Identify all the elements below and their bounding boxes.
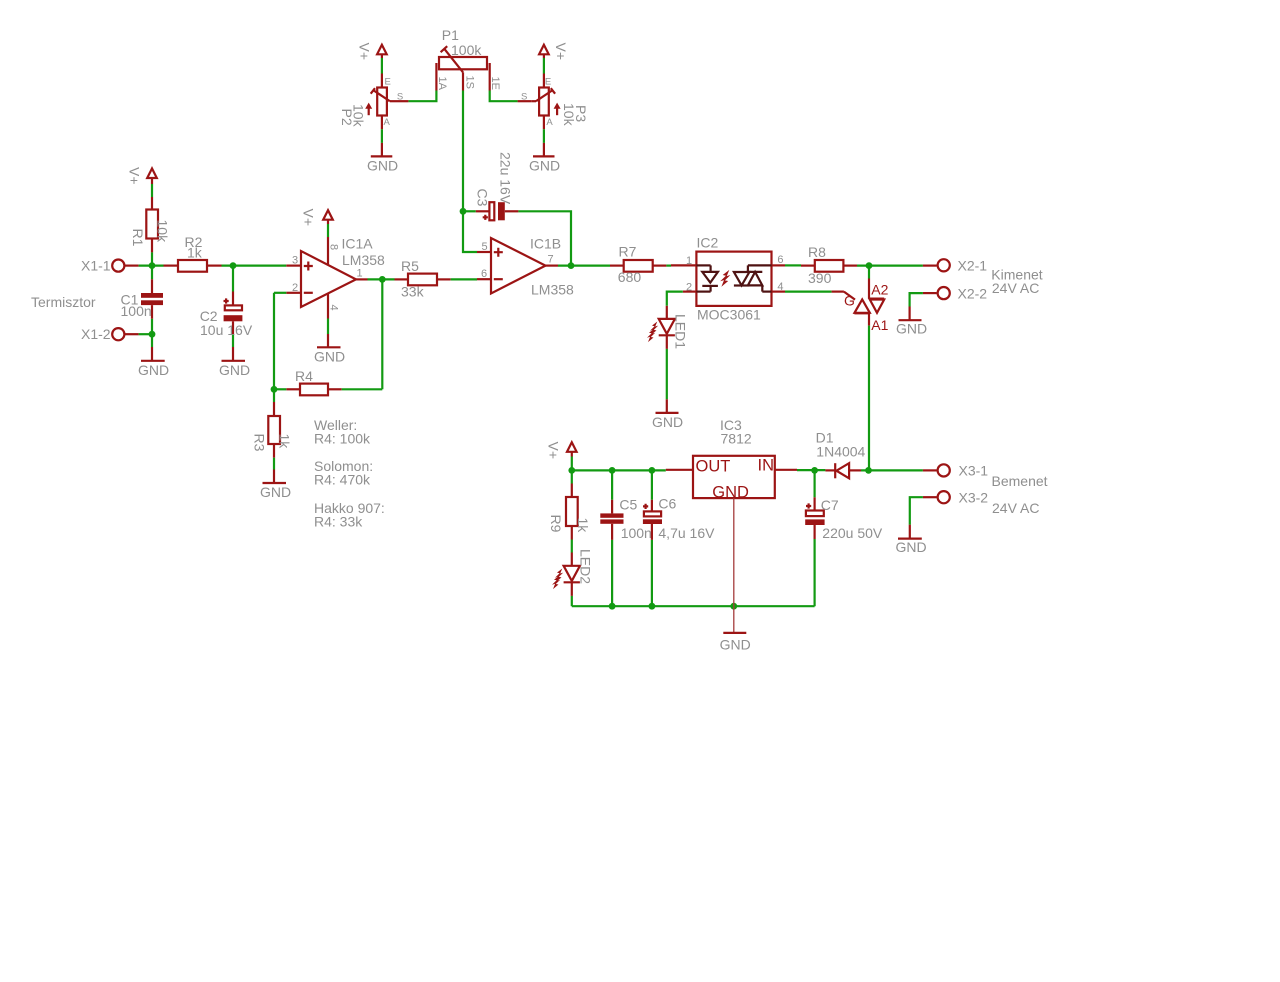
wire IC1A output node bbox=[368, 278, 395, 280]
wire triac A1 down to X3-1 node bbox=[868, 326, 870, 471]
svg-text:C6: C6 bbox=[658, 496, 676, 512]
svg-text:10k: 10k bbox=[561, 103, 577, 127]
resistor R4 bbox=[286, 368, 341, 395]
supply symbol V+ (IC1A) bbox=[301, 209, 333, 227]
svg-text:GND: GND bbox=[260, 484, 291, 500]
wire R3 to ground bbox=[273, 458, 275, 470]
svg-text:100n: 100n bbox=[621, 525, 652, 541]
junction node thermistor bbox=[149, 262, 156, 269]
ground GND (C2) bbox=[219, 347, 250, 378]
svg-text:2: 2 bbox=[686, 282, 692, 294]
svg-text:IN: IN bbox=[758, 456, 775, 474]
svg-text:R4: 33k: R4: 33k bbox=[314, 514, 363, 530]
note text Weller bbox=[314, 417, 371, 447]
op-amp IC1B pin5 stub bbox=[477, 251, 491, 253]
junction IC1A output bbox=[379, 276, 386, 283]
svg-text:C5: C5 bbox=[619, 496, 637, 512]
terminal X3-1 bbox=[923, 463, 988, 479]
svg-text:7812: 7812 bbox=[721, 431, 752, 447]
optocoupler IC2 pin1 stub bbox=[671, 264, 696, 266]
ground GND (bottom rail) bbox=[720, 606, 751, 652]
wire IC1A pin2 feedback bbox=[274, 293, 286, 402]
svg-text:1k: 1k bbox=[277, 434, 293, 450]
svg-text:C3: C3 bbox=[475, 189, 491, 207]
terminal X2-1 bbox=[923, 258, 987, 274]
wire IC2 pin2 to LED1 bbox=[667, 292, 683, 306]
svg-text:P1: P1 bbox=[442, 27, 459, 43]
svg-text:S: S bbox=[521, 92, 527, 103]
capacitor C7 220u 50V bbox=[805, 470, 883, 606]
wire D1 to X3-1 bbox=[861, 469, 923, 471]
svg-text:10u 16V: 10u 16V bbox=[200, 322, 253, 338]
wire P1 1A to P2 wiper bbox=[408, 91, 436, 102]
terminal X2-2 bbox=[923, 285, 987, 301]
op-amp IC1A pin4 stub bbox=[327, 294, 329, 319]
svg-text:A2: A2 bbox=[871, 282, 888, 298]
svg-text:GND: GND bbox=[652, 414, 683, 430]
svg-text:680: 680 bbox=[618, 269, 642, 285]
capacitor C2 10u 16V bbox=[200, 266, 253, 339]
supply symbol V+ (P2) bbox=[357, 43, 387, 61]
ground GND (R3) bbox=[260, 470, 291, 501]
wire IC3 IN to D1 node bbox=[797, 469, 825, 471]
svg-text:X2-1: X2-1 bbox=[958, 258, 988, 274]
svg-text:OUT: OUT bbox=[696, 457, 731, 475]
svg-text:V+: V+ bbox=[301, 209, 317, 227]
label Kimenet 24V AC bbox=[991, 266, 1042, 296]
wire C2 to ground bbox=[232, 335, 234, 347]
wire R9 to LED2 bbox=[571, 540, 573, 553]
capacitor C6 4,7u 16V bbox=[643, 470, 715, 606]
svg-text:4,7u 16V: 4,7u 16V bbox=[658, 525, 715, 541]
svg-text:GND: GND bbox=[712, 484, 749, 502]
label Bemenet 24V AC bbox=[992, 473, 1048, 516]
svg-text:22u 16V: 22u 16V bbox=[498, 152, 514, 205]
wire X1-2 to node bbox=[139, 333, 152, 335]
svg-text:GND: GND bbox=[896, 320, 927, 336]
svg-text:1E: 1E bbox=[489, 77, 501, 90]
ground GND (P2) bbox=[367, 143, 398, 174]
wire R1 to node bbox=[151, 252, 153, 265]
ground GND (IC1A) bbox=[314, 334, 345, 365]
svg-text:E: E bbox=[545, 77, 551, 88]
svg-text:10k: 10k bbox=[351, 104, 367, 128]
optocoupler IC2 pin6 stub bbox=[772, 264, 786, 266]
junction rail R9 bbox=[568, 467, 575, 474]
svg-text:GND: GND bbox=[720, 636, 751, 652]
svg-text:1A: 1A bbox=[436, 77, 448, 91]
junction X1-2 node bbox=[149, 331, 156, 338]
svg-text:V+: V+ bbox=[127, 167, 143, 185]
terminal X1-1 bbox=[81, 258, 139, 274]
junction rail C5 bbox=[609, 467, 616, 474]
wire IC1B output to R7 bbox=[558, 265, 610, 267]
wire X3-2 to ground bbox=[910, 497, 923, 525]
optocoupler IC2 pin2 stub bbox=[683, 291, 697, 293]
svg-text:R3: R3 bbox=[252, 434, 268, 452]
svg-text:R7: R7 bbox=[619, 244, 637, 260]
wire X1-1 to R2 bbox=[139, 265, 164, 267]
svg-text:1: 1 bbox=[357, 267, 363, 279]
svg-text:E: E bbox=[385, 77, 391, 88]
wire IC2 pin6 to R8 bbox=[785, 264, 801, 266]
svg-text:X1-1: X1-1 bbox=[81, 258, 111, 274]
resistor R3 1k bbox=[252, 402, 293, 458]
wire V+ to IC1A pin8 bbox=[327, 224, 329, 237]
svg-text:LED2: LED2 bbox=[578, 549, 594, 584]
capacitor C5 100n bbox=[600, 470, 652, 606]
svg-text:GND: GND bbox=[314, 349, 345, 365]
svg-text:100n: 100n bbox=[121, 303, 152, 319]
junction IC1B output bbox=[568, 262, 575, 269]
svg-text:R1: R1 bbox=[130, 229, 146, 247]
svg-text:24V AC: 24V AC bbox=[992, 280, 1039, 296]
svg-text:8: 8 bbox=[328, 244, 340, 250]
svg-text:Bemenet: Bemenet bbox=[992, 473, 1048, 489]
svg-text:GND: GND bbox=[219, 362, 250, 378]
ground GND (X2-2) bbox=[896, 307, 927, 337]
supply symbol V+ (rail) bbox=[546, 442, 577, 460]
wire R5 to IC1B pin6 bbox=[451, 278, 477, 280]
wire bottom ground rail bbox=[572, 605, 815, 607]
svg-text:Termisztor: Termisztor bbox=[31, 294, 96, 310]
svg-text:IC2: IC2 bbox=[697, 235, 719, 251]
svg-text:R4: 470k: R4: 470k bbox=[314, 472, 371, 488]
svg-text:6: 6 bbox=[481, 268, 487, 280]
wire V+ to R1 bbox=[151, 184, 153, 197]
op-amp IC1B pin6 stub bbox=[477, 278, 491, 280]
op-amp IC1A output stub bbox=[356, 278, 368, 280]
junction X2-1 node bbox=[866, 262, 873, 269]
ground GND (X3-2) bbox=[895, 525, 926, 555]
supply symbol V+ (P3) bbox=[539, 43, 569, 61]
resistor R8 390 bbox=[801, 244, 857, 286]
note text Solomon bbox=[314, 458, 373, 488]
svg-text:1k: 1k bbox=[575, 518, 591, 534]
wire P3 A to ground bbox=[543, 129, 545, 143]
note text Hakko bbox=[314, 500, 385, 530]
wire IC2 pin4 to triac gate bbox=[785, 291, 832, 293]
potentiometer P2 10k bbox=[339, 74, 408, 130]
svg-text:33k: 33k bbox=[401, 284, 425, 300]
svg-text:GND: GND bbox=[367, 158, 398, 174]
svg-text:X3-2: X3-2 bbox=[959, 489, 989, 505]
svg-text:1N4004: 1N4004 bbox=[816, 443, 865, 459]
potentiometer P1 100k bbox=[436, 27, 501, 90]
capacitor C3 22u 16V bbox=[475, 152, 519, 220]
terminal X1-2 bbox=[81, 326, 139, 342]
supply symbol V+ (R1 branch) bbox=[127, 167, 157, 185]
junction rail C6 bbox=[649, 467, 656, 474]
svg-text:IC1B: IC1B bbox=[530, 236, 561, 252]
wire C1 to X1-2 node bbox=[151, 319, 153, 347]
wire P2 A to ground bbox=[381, 129, 383, 143]
svg-text:5: 5 bbox=[482, 241, 488, 253]
op-amp IC1A pin8 stub bbox=[327, 237, 329, 265]
svg-text:24V AC: 24V AC bbox=[992, 500, 1039, 516]
svg-text:GND: GND bbox=[138, 362, 169, 378]
junction X3-1 node bbox=[865, 467, 872, 474]
svg-text:X2-2: X2-2 bbox=[958, 285, 988, 301]
svg-text:LM358: LM358 bbox=[342, 252, 385, 268]
svg-text:100k: 100k bbox=[451, 42, 482, 58]
terminal X3-2 bbox=[923, 489, 988, 505]
resistor R7 680 bbox=[610, 244, 666, 286]
svg-text:R5: R5 bbox=[401, 258, 419, 274]
wire P1 1S down to C3 node bbox=[462, 91, 464, 212]
diode LED1 bbox=[647, 306, 689, 349]
diode D1 1N4004 bbox=[816, 429, 866, 478]
svg-text:X1-2: X1-2 bbox=[81, 326, 111, 342]
op-amp IC1A pin3 stub bbox=[286, 265, 301, 267]
resistor R1 10k bbox=[130, 197, 171, 252]
op-amp IC1A pin2 stub bbox=[286, 292, 301, 294]
junction bottom IC3 GND bbox=[730, 603, 737, 610]
ground GND (P3) bbox=[529, 143, 560, 174]
svg-text:R4: 100k: R4: 100k bbox=[314, 431, 371, 447]
svg-text:R9: R9 bbox=[548, 515, 564, 533]
wire C3 to IC1B output node bbox=[518, 211, 571, 265]
svg-text:R4: R4 bbox=[295, 368, 313, 384]
svg-text:GND: GND bbox=[895, 539, 926, 555]
wire LED2 to bottom rail bbox=[571, 596, 573, 606]
wire P1 1E to P3 wiper bbox=[490, 91, 518, 102]
wire V+ to rail bbox=[571, 457, 573, 471]
optocoupler IC2 MOC3061 bbox=[686, 235, 784, 323]
wire feedback vertical to R4 bbox=[381, 279, 383, 389]
ground GND (C1) bbox=[138, 347, 169, 378]
triac T1 bbox=[832, 279, 889, 333]
svg-text:LED1: LED1 bbox=[673, 314, 689, 349]
wire X2-1 node down to triac A2 bbox=[868, 266, 870, 279]
svg-text:3: 3 bbox=[292, 255, 298, 267]
svg-text:390: 390 bbox=[808, 270, 832, 286]
wire R8 to X2-1 bbox=[857, 265, 923, 267]
ground GND (LED1) bbox=[652, 399, 683, 430]
junction bottom C5 bbox=[609, 603, 616, 610]
capacitor C1 100n bbox=[121, 266, 164, 319]
wire IC1A pin4 to ground bbox=[327, 319, 329, 335]
wire R4 right to feedback bbox=[342, 388, 383, 390]
wire X2-2 to ground bbox=[910, 293, 923, 306]
svg-text:1k: 1k bbox=[187, 245, 203, 261]
svg-text:10k: 10k bbox=[155, 220, 171, 244]
svg-text:MOC3061: MOC3061 bbox=[697, 307, 761, 323]
optocoupler IC2 pin4 stub bbox=[772, 291, 786, 293]
wire node down to IC1B pin5 bbox=[463, 211, 477, 252]
junction C7 node bbox=[811, 467, 818, 474]
svg-text:GND: GND bbox=[529, 158, 560, 174]
svg-text:2: 2 bbox=[292, 282, 298, 294]
wire node to C3 bbox=[463, 210, 476, 212]
op-amp IC1B LM358 bbox=[481, 236, 574, 298]
svg-text:X3-1: X3-1 bbox=[959, 463, 989, 479]
svg-text:1S: 1S bbox=[463, 76, 475, 89]
svg-text:V+: V+ bbox=[357, 43, 373, 61]
junction bottom C6 bbox=[649, 603, 656, 610]
diode LED2 bbox=[552, 549, 594, 596]
op-amp IC1B output stub bbox=[546, 265, 559, 267]
svg-text:S: S bbox=[397, 92, 403, 103]
resistor R9 1k bbox=[548, 470, 591, 539]
junction C3 node bbox=[460, 208, 467, 215]
svg-text:7: 7 bbox=[548, 254, 554, 266]
op-amp IC1A LM358 bbox=[292, 235, 385, 310]
resistor R5 33k bbox=[395, 258, 451, 300]
svg-text:V+: V+ bbox=[546, 442, 562, 460]
wire V+ to P3 E bbox=[543, 58, 545, 74]
svg-text:1: 1 bbox=[686, 255, 692, 267]
wire supply rail bbox=[572, 469, 666, 471]
potentiometer P3 10k bbox=[518, 74, 589, 130]
wire R2 to IC1A pin3 bbox=[222, 265, 287, 267]
wire R7 to IC2 pin1 bbox=[666, 265, 671, 267]
svg-text:G: G bbox=[844, 292, 855, 308]
svg-text:A: A bbox=[546, 117, 553, 128]
svg-text:A1: A1 bbox=[871, 317, 888, 333]
svg-text:V+: V+ bbox=[553, 43, 569, 61]
svg-text:4: 4 bbox=[328, 305, 340, 311]
wire R4 left to node bbox=[274, 388, 286, 390]
svg-text:LM358: LM358 bbox=[531, 282, 574, 298]
svg-text:A: A bbox=[384, 117, 391, 128]
svg-text:R8: R8 bbox=[808, 244, 826, 260]
junction node C2 bbox=[230, 262, 237, 269]
junction R4/R3 node bbox=[271, 386, 278, 393]
svg-text:IC1A: IC1A bbox=[342, 235, 374, 251]
svg-text:C7: C7 bbox=[821, 497, 839, 513]
resistor R2 1k bbox=[164, 234, 222, 272]
wire LED1 to ground bbox=[666, 349, 668, 399]
wire V+ to P2 E bbox=[381, 58, 383, 74]
svg-text:220u 50V: 220u 50V bbox=[822, 525, 883, 541]
regulator IC3 7812 bbox=[666, 417, 797, 606]
